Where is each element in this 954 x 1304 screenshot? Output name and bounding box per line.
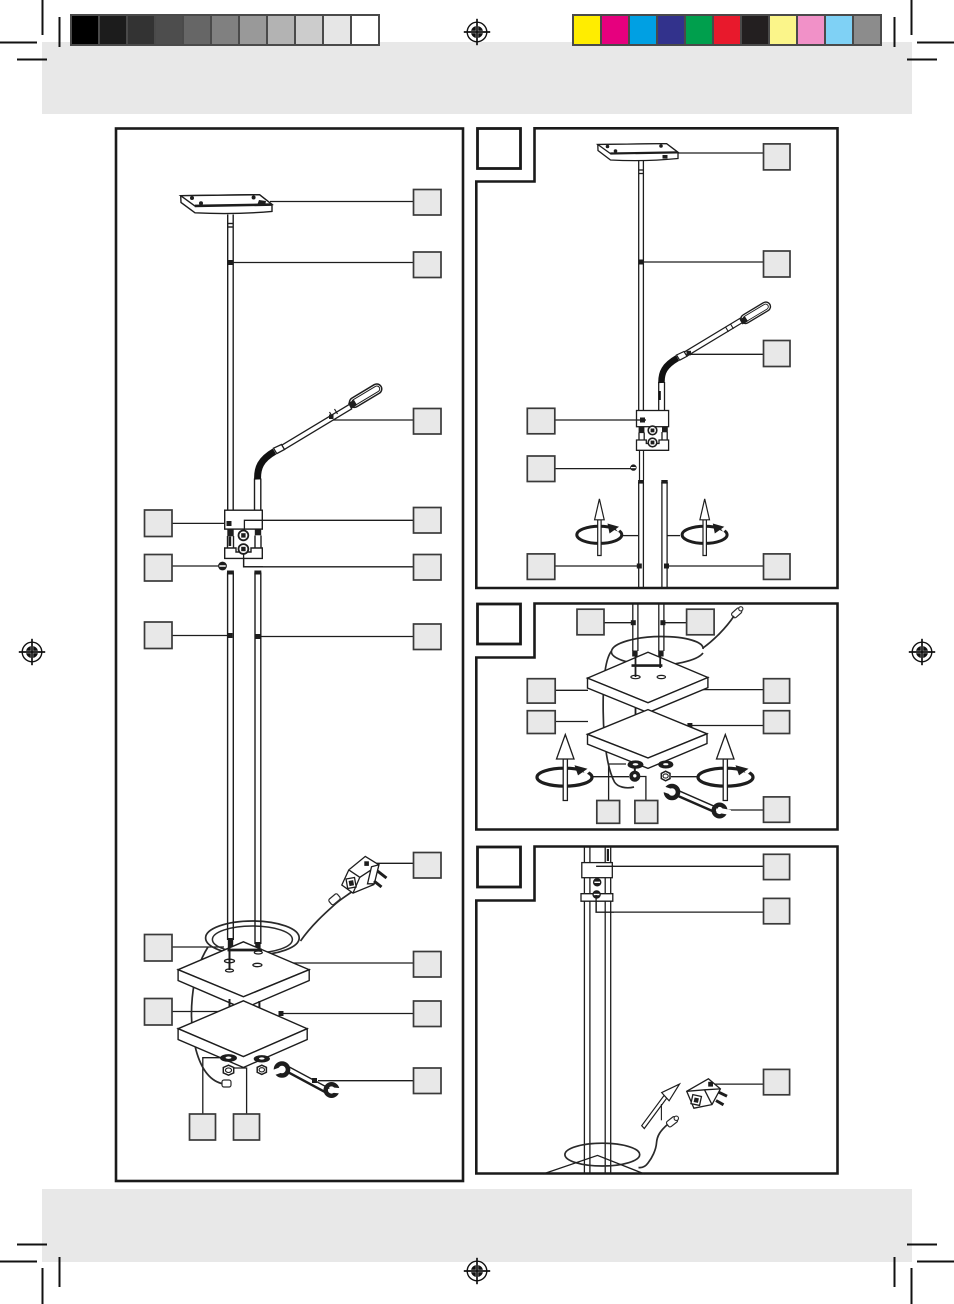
cable from plug to coil — [301, 891, 354, 941]
node I — [279, 1011, 284, 1016]
left panel border — [116, 129, 463, 1182]
node T1 — [631, 620, 636, 625]
callout line B2 (pole) — [641, 261, 764, 263]
bolt below clamp — [218, 562, 227, 571]
box bottom 2 — [234, 1114, 260, 1140]
node B2 — [639, 260, 644, 265]
registration mark bottom — [464, 1258, 490, 1284]
upper pole (top-right panel) — [639, 161, 644, 411]
node R3-2 — [687, 723, 692, 728]
line R4-2 jog over clamp (P4) — [596, 895, 614, 912]
color calibration bar — [573, 15, 881, 45]
washers and nut left stack — [221, 1055, 237, 1075]
shaft — [288, 1070, 328, 1092]
callout line H (upper base plate) — [281, 962, 414, 964]
head plate (left panel) — [181, 195, 272, 214]
short pole below clamp — [640, 450, 644, 480]
callout line R3-2 (lower plate) — [690, 725, 764, 727]
gooseneck arm (top-right panel) — [659, 300, 772, 410]
registration mark top — [464, 19, 490, 45]
arrow (bottom panel) — [642, 1084, 680, 1128]
node B on pole — [228, 260, 233, 265]
box R3-1 — [764, 679, 790, 703]
lower-left pole (left panel) — [227, 571, 234, 950]
callout line L5 (strap) — [171, 1011, 228, 1013]
poles below clamp (bottom panel) — [584, 901, 610, 1173]
node J — [312, 1078, 317, 1083]
box C2 — [764, 341, 791, 367]
callout line L2-1 (clamp) — [554, 419, 642, 421]
box L2-1 — [527, 408, 555, 434]
right top panel border with notch — [476, 128, 837, 588]
callout line F (right pole) — [258, 636, 414, 638]
footer gray band — [42, 1189, 912, 1262]
step box 3 — [478, 847, 521, 887]
lamp head stadium — [348, 382, 384, 409]
cable connector mid — [328, 893, 341, 905]
base coil (bottom panel) — [565, 1143, 640, 1166]
rotation symbol left (middle panel) — [537, 735, 593, 801]
box C — [414, 409, 442, 435]
box D — [414, 508, 442, 534]
box BC2 — [635, 801, 658, 824]
bolt (top-right panel) — [630, 464, 636, 470]
box L3 — [145, 622, 173, 649]
rotation symbol left (top-right panel) — [577, 499, 624, 556]
node R3-1 — [687, 687, 692, 692]
box A2 — [764, 144, 791, 170]
callout line to bottom box 2 — [233, 1068, 247, 1114]
callout boxes middle panel — [527, 609, 789, 823]
callout line C2 (arm) — [690, 353, 764, 355]
callout line to bottom box 1 — [203, 1058, 224, 1114]
callout line T2 (right pole) — [661, 622, 687, 624]
upper base plate (left panel) — [178, 942, 309, 1009]
box A — [414, 190, 442, 216]
right bottom panel border with notch — [476, 847, 837, 1174]
rotate line left — [623, 535, 638, 537]
step box 1 — [478, 129, 521, 169]
box T2 — [687, 609, 715, 635]
box G — [414, 853, 442, 879]
wrench (left panel) — [272, 1064, 343, 1096]
screw between plates — [225, 999, 264, 1017]
header gray band — [42, 42, 912, 114]
lower-left pole (top-right panel) — [638, 480, 644, 588]
lower-right pole (left panel) — [254, 571, 261, 954]
box E — [414, 555, 442, 581]
cable (middle panel) — [603, 607, 743, 788]
black gooseneck curve — [258, 452, 275, 480]
box T1 — [577, 609, 604, 635]
plug (bottom panel) — [687, 1079, 727, 1108]
box L3-1 — [527, 679, 555, 703]
callout line I (lower base plate) — [281, 1013, 414, 1015]
right jaw — [326, 1084, 338, 1096]
node C on shaft — [329, 415, 334, 420]
upper pole (left panel) — [228, 215, 234, 511]
grayscale calibration bar — [71, 15, 379, 45]
line E jog over clamp — [244, 553, 263, 567]
box R4-3 — [764, 1069, 790, 1094]
box L2-3 — [527, 554, 555, 580]
left jaw opening up-left — [666, 786, 678, 798]
callout line R2-4 (right pole bottom) — [666, 565, 764, 567]
box J — [414, 1068, 442, 1094]
overlay callout segments over white shapes — [227, 418, 647, 913]
callout boxes bottom panel — [764, 854, 790, 1095]
clamp (left panel) — [225, 510, 263, 558]
box F — [414, 624, 442, 650]
box L4 — [145, 935, 173, 962]
callout line R4-3 (plug) — [712, 1083, 764, 1085]
clamp (top-right panel) — [637, 411, 669, 451]
callout boxes top-right panel — [527, 144, 790, 580]
lower base plate (middle panel) — [588, 710, 708, 769]
box BC1 — [597, 801, 620, 824]
box L2 — [145, 555, 173, 582]
node T2 — [660, 620, 665, 625]
callout line L3-1 (upper plate left) — [555, 689, 589, 691]
rotate line right — [668, 535, 681, 537]
box L2-2 — [527, 456, 555, 482]
callout line D (clamp knob 1) — [244, 520, 414, 531]
trim marks bottom-left — [0, 1245, 60, 1304]
step box 2 — [478, 604, 521, 644]
box R2-4 — [764, 554, 791, 580]
callout line L4 (pole base) — [171, 946, 224, 948]
trim marks bottom-right — [895, 1245, 954, 1304]
node L1 — [227, 521, 232, 526]
clamp (bottom panel) — [581, 863, 613, 902]
box R4-2 — [764, 898, 790, 923]
node L3 — [228, 633, 233, 638]
box R3-3 — [764, 797, 790, 822]
box L1 — [145, 510, 173, 537]
rotate-link lines (middle panel) — [592, 776, 699, 778]
cable loop around poles — [611, 637, 703, 666]
power plug (left panel) — [342, 856, 387, 893]
box R4-1 — [764, 854, 790, 879]
strap on upper plate (middle panel) — [631, 653, 666, 679]
cable from connector to loop — [703, 616, 734, 648]
box B2 — [764, 251, 791, 277]
head plate (top-right panel) — [598, 144, 678, 161]
arm shaft double line — [282, 404, 350, 445]
washers below (middle panel) — [628, 761, 673, 781]
wrench (middle panel) — [662, 786, 731, 816]
callout line J (wrench) — [318, 1080, 414, 1082]
shaft collar marks — [330, 412, 333, 417]
strap on upper plate — [225, 942, 263, 972]
callout line R4-2 (clamp lower) — [596, 895, 763, 912]
callout line L3-2 (lower plate left) — [555, 721, 589, 723]
callout line L3 (left pole) — [171, 635, 230, 637]
left jaw — [276, 1064, 288, 1076]
lower base plate (left panel) — [178, 1001, 307, 1068]
callout line R3-1 (upper plate) — [690, 689, 764, 691]
cable from coil to bottom connector — [192, 947, 224, 1084]
callout line A (head plate) — [270, 201, 414, 203]
box B — [414, 252, 442, 278]
washers and nut right stack — [254, 1056, 269, 1075]
arm lower tube — [255, 479, 261, 511]
cable + connector (bottom panel) — [639, 1116, 679, 1168]
cable end connector — [222, 1080, 231, 1087]
node L1 over clamp — [227, 521, 232, 526]
cable coil (left panel base) — [206, 921, 300, 955]
callout line A2 (head plate) — [676, 152, 764, 154]
callout line L2 (bolt) — [171, 565, 221, 567]
lower-right pole (top-right panel) — [661, 480, 667, 588]
callout line G (plug) — [370, 862, 414, 864]
right jaw opening right-down — [714, 805, 726, 817]
callout line L1 (clamp) — [171, 522, 228, 524]
cable tail down left side — [603, 651, 634, 788]
callout line R3-3 (wrench) — [727, 809, 764, 811]
gooseneck arm (left panel) — [255, 382, 384, 510]
node L2-1 — [640, 418, 645, 423]
callout line E (clamp knob 2) — [244, 553, 414, 567]
upper base plate (middle panel) — [588, 652, 708, 713]
box I — [414, 1001, 442, 1027]
line R4-1 over clamp (P4) — [596, 865, 613, 867]
head joint — [348, 400, 357, 409]
node R2-4 — [664, 564, 669, 569]
poles entering (middle panel) — [632, 604, 664, 657]
callout line R4-1 (clamp) — [596, 865, 763, 867]
node L2-3 — [637, 564, 642, 569]
line D jog over clamp — [244, 520, 263, 531]
base plate triangle (bottom panel) — [543, 1155, 645, 1174]
node L2-1 over clamp (P2) — [640, 418, 645, 423]
trim marks top-right — [895, 0, 954, 60]
box bottom 1 — [190, 1114, 216, 1140]
node H — [279, 961, 284, 966]
node F — [256, 634, 261, 639]
box L3-2 — [527, 711, 555, 734]
trim marks top-left — [0, 0, 60, 60]
right middle panel border with notch — [476, 604, 837, 830]
callout line BC1 (washer) — [609, 764, 626, 801]
pole stubs above clamp (bottom panel) — [584, 847, 610, 863]
callout line BC2 (bolt) — [637, 777, 646, 801]
box L5 — [145, 999, 173, 1026]
box R3-2 — [764, 711, 790, 734]
callout line L2-2 (bolt) — [554, 468, 631, 470]
callout line B (upper pole) — [231, 262, 414, 264]
elbow collar — [274, 445, 285, 454]
registration mark left — [19, 639, 45, 665]
cable connector top right — [731, 607, 743, 618]
callout line T1 (left pole) — [604, 622, 634, 624]
rotation symbol right (middle panel) — [698, 735, 754, 801]
callout line L2-3 (left pole bottom) — [554, 565, 640, 567]
callout line C (arm) — [333, 419, 414, 421]
rotation symbol right (top-right panel) — [682, 499, 729, 556]
registration mark right — [909, 639, 935, 665]
box H — [414, 952, 442, 978]
screw between plates (middle panel) — [631, 708, 665, 729]
